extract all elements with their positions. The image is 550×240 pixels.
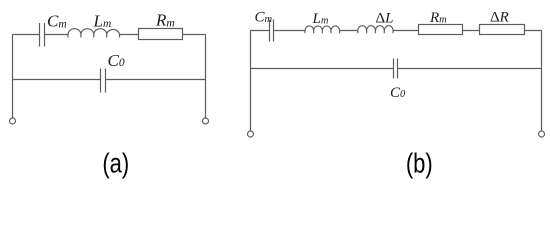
inductor dL (b) <box>358 26 393 34</box>
capacitor Cm (b) left plate <box>269 20 271 42</box>
terminal right (a) <box>203 118 209 124</box>
circuit a: left vertical wire <box>12 35 14 119</box>
svg-text:(b): (b) <box>406 148 433 179</box>
circuit a: mid wire left of C0 <box>13 79 101 81</box>
capacitor Cm (a) right plate <box>44 23 46 47</box>
capacitor Cm (a) left plate <box>39 23 41 47</box>
capacitor Cm (b) right plate <box>273 20 275 42</box>
wire Cm to Lm (b) <box>274 30 306 32</box>
capacitor C0 (a) right plate <box>105 69 107 93</box>
wire dL to Rm (b) <box>393 30 418 32</box>
wire Cm to Lm (a) <box>45 34 69 36</box>
inductor Lm (b) <box>305 26 340 33</box>
capacitor C0 (b) left plate <box>393 59 395 79</box>
capacitor C0 (a) left plate <box>100 69 102 93</box>
circuit b: mid wire right of C0 <box>398 68 542 70</box>
terminal left (a) <box>10 118 16 124</box>
circuit b: right vertical wire <box>541 31 543 132</box>
svg-text:ΔR: ΔR <box>490 10 509 26</box>
resistor Rm (b) <box>419 25 463 35</box>
resistor dR (b) <box>480 25 525 35</box>
wire Rm to right vertical (a) <box>183 34 206 36</box>
circuit b: top wire to Cm <box>251 30 270 32</box>
resistor Rm (a) <box>139 29 183 40</box>
capacitor C0 (b) right plate <box>397 59 399 79</box>
wire Rm to dR (b) <box>463 30 480 32</box>
circuit b: left vertical wire <box>250 31 252 132</box>
inductor Lm (a) <box>68 29 120 38</box>
terminal right (b) <box>539 131 545 137</box>
wire dR to right vertical (b) <box>525 30 542 32</box>
svg-text:(a): (a) <box>102 148 129 179</box>
svg-text:ΔL: ΔL <box>376 10 394 26</box>
terminal left (b) <box>248 131 254 137</box>
circuit b: mid wire left of C0 <box>251 68 394 70</box>
circuit a: mid wire right of C0 <box>106 79 206 81</box>
wire Lm to Rm (a) <box>120 34 139 36</box>
wire Lm to dL (b) <box>340 30 358 32</box>
circuit a: top wire to Cm <box>13 34 40 36</box>
circuit a: right vertical wire <box>205 35 207 119</box>
